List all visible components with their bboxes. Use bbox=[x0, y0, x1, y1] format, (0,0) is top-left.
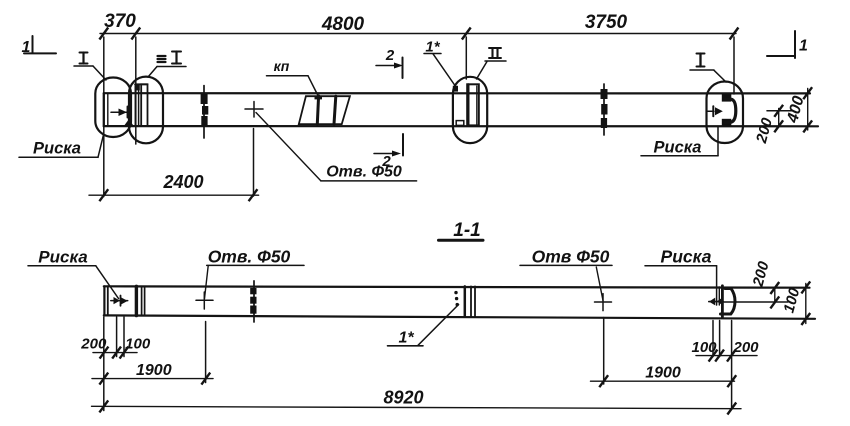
svg-text:100: 100 bbox=[125, 336, 151, 353]
svg-text:200: 200 bbox=[732, 339, 759, 356]
svg-text:4800: 4800 bbox=[321, 14, 365, 35]
svg-text:200: 200 bbox=[753, 116, 776, 146]
svg-text:370: 370 bbox=[104, 11, 136, 32]
svg-text:1900: 1900 bbox=[645, 365, 681, 382]
svg-text:Риска: Риска bbox=[661, 247, 712, 267]
svg-text:200: 200 bbox=[80, 336, 107, 353]
svg-text:1*: 1* bbox=[398, 330, 414, 347]
svg-text:100: 100 bbox=[781, 286, 804, 315]
svg-text:1900: 1900 bbox=[136, 362, 172, 379]
svg-text:Риска: Риска bbox=[33, 140, 81, 158]
svg-text:400: 400 bbox=[784, 94, 808, 125]
svg-text:3750: 3750 bbox=[585, 12, 628, 33]
svg-text:100: 100 bbox=[691, 339, 717, 356]
svg-text:Риска: Риска bbox=[653, 139, 701, 157]
svg-text:1: 1 bbox=[799, 38, 808, 55]
svg-text:2: 2 bbox=[385, 47, 395, 64]
svg-text:Отв. Ф50: Отв. Ф50 bbox=[326, 164, 402, 181]
svg-text:Отв. Ф50: Отв. Ф50 bbox=[208, 247, 291, 267]
svg-text:Отв Ф50: Отв Ф50 bbox=[532, 247, 610, 267]
svg-text:1-1: 1-1 bbox=[453, 220, 480, 241]
svg-text:2400: 2400 bbox=[162, 172, 203, 192]
svg-text:Риска: Риска bbox=[38, 248, 87, 267]
svg-text:8920: 8920 bbox=[383, 388, 423, 408]
svg-text:200: 200 bbox=[749, 259, 772, 289]
svg-text:кп: кп bbox=[274, 58, 290, 74]
